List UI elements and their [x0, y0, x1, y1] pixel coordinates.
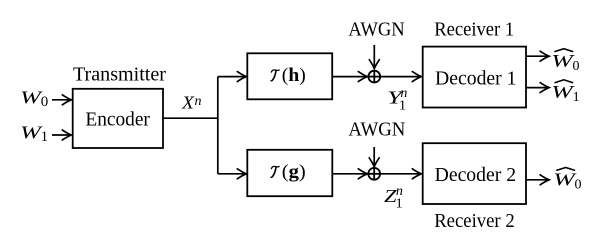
svg-text:0: 0	[41, 94, 49, 110]
svg-text:n: n	[195, 94, 202, 109]
svg-text:Receiver 1: Receiver 1	[434, 19, 514, 41]
svg-text:Transmitter: Transmitter	[73, 64, 166, 86]
svg-text:1: 1	[573, 90, 580, 105]
svg-text:(h): (h)	[282, 66, 306, 86]
svg-text:1: 1	[396, 196, 403, 211]
svg-text:X: X	[181, 93, 196, 113]
svg-text:AWGN: AWGN	[348, 19, 404, 41]
svg-text:AWGN: AWGN	[348, 118, 405, 140]
svg-text:Encoder: Encoder	[85, 109, 150, 131]
svg-text:1: 1	[399, 98, 406, 113]
svg-text:(g): (g)	[282, 162, 306, 182]
svg-text:0: 0	[573, 59, 580, 74]
svg-text:W: W	[20, 88, 43, 108]
svg-text:0: 0	[575, 177, 582, 192]
svg-text:W: W	[20, 123, 43, 143]
svg-text:Decoder 1: Decoder 1	[435, 67, 517, 89]
svg-text:Decoder 2: Decoder 2	[435, 164, 516, 186]
svg-text:Receiver 2: Receiver 2	[434, 210, 515, 232]
svg-text:1: 1	[41, 129, 49, 145]
